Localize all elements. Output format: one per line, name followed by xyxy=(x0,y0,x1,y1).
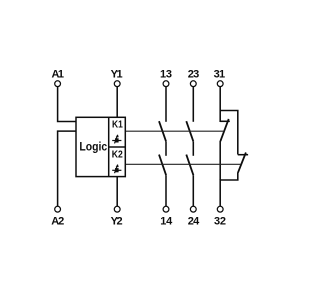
svg-text:K1: K1 xyxy=(112,119,123,131)
svg-text:Y2: Y2 xyxy=(111,216,123,228)
svg-text:14: 14 xyxy=(160,216,173,228)
svg-text:K2: K2 xyxy=(112,149,123,161)
svg-text:Logic: Logic xyxy=(79,140,107,153)
svg-text:31: 31 xyxy=(214,68,226,80)
svg-text:A1: A1 xyxy=(52,68,65,80)
svg-text:32: 32 xyxy=(214,216,226,228)
svg-text:A2: A2 xyxy=(51,216,64,228)
svg-text:13: 13 xyxy=(160,68,172,80)
svg-text:23: 23 xyxy=(188,68,200,80)
svg-text:Y1: Y1 xyxy=(111,68,123,80)
svg-text:24: 24 xyxy=(188,216,200,228)
